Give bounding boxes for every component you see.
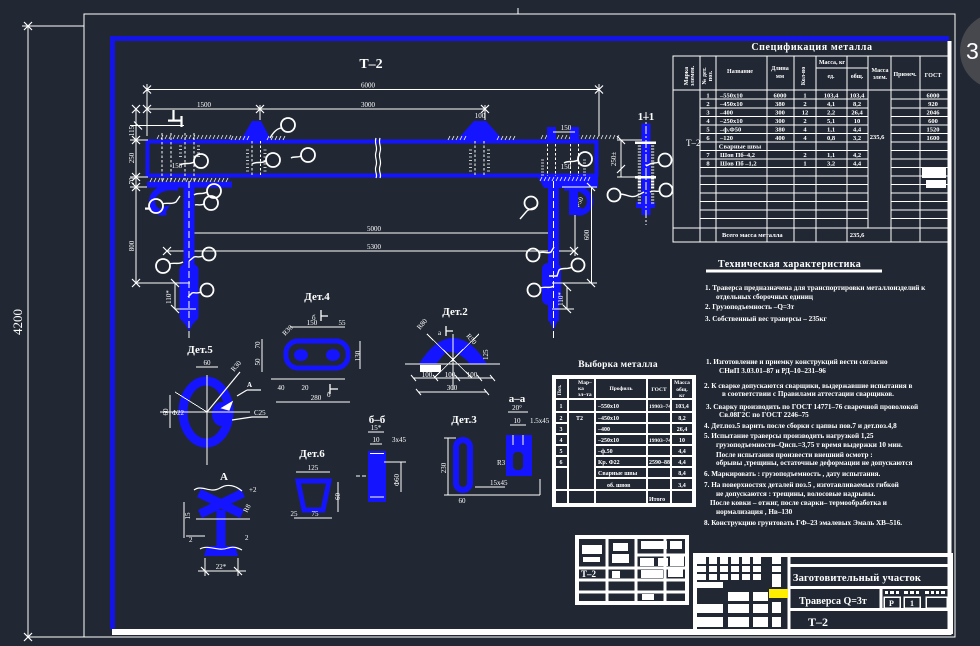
spec note blob right	[922, 168, 946, 178]
svg-text:поз.: поз.	[708, 70, 714, 81]
svg-text:10: 10	[679, 438, 685, 444]
Det.5 A arrow	[237, 390, 261, 396]
svg-text:–450х10: –450х10	[597, 416, 619, 422]
svg-text:1.5х45: 1.5х45	[530, 417, 550, 425]
svg-text:Шов Пб –1,2: Шов Пб –1,2	[720, 161, 757, 168]
svg-text:26,4: 26,4	[851, 110, 863, 117]
svg-text:4,4: 4,4	[853, 127, 862, 134]
combs above beam top at right posts	[541, 135, 619, 139]
svg-text:50: 50	[254, 358, 262, 366]
svg-text:Сварные швы: Сварные швы	[598, 471, 638, 477]
svg-text:–250х10: –250х10	[597, 438, 619, 444]
left gusset comb	[150, 178, 228, 182]
svg-text:Кол-во: Кол-во	[801, 67, 807, 86]
svg-text:Т–2: Т–2	[581, 569, 597, 579]
svg-text:4200: 4200	[10, 309, 25, 335]
lug1 dashed center	[252, 141, 261, 176]
svg-text:Название: Название	[727, 69, 753, 75]
Det.2 centerlines	[405, 334, 500, 390]
svg-text:130: 130	[354, 350, 362, 361]
Det.2 white block	[420, 365, 441, 372]
svg-text:–120: –120	[719, 135, 733, 142]
svg-text:грузоподъемности–Qисп.=3,75 т: грузоподъемности–Qисп.=3,75 т время выде…	[716, 441, 903, 449]
svg-text:–450х10: –450х10	[719, 101, 743, 108]
svg-text:6000: 6000	[774, 93, 787, 100]
svg-text:Спецификация металла: Спецификация металла	[751, 42, 872, 53]
lug 1 hatch	[231, 136, 285, 140]
svg-text:19903–74: 19903–74	[649, 438, 671, 444]
1-1 dim 250	[617, 136, 642, 177]
svg-text:2: 2	[245, 534, 249, 542]
svg-text:Масса, кг: Масса, кг	[819, 60, 846, 66]
svg-text:800: 800	[128, 240, 136, 251]
lit/list row tiny text	[885, 591, 945, 594]
svg-text:мм: мм	[776, 74, 784, 80]
left stiffener dashed pair 1	[162, 133, 171, 183]
svg-text:+2: +2	[249, 486, 257, 494]
svg-text:2: 2	[189, 536, 193, 544]
svg-text:элем.: элем.	[873, 75, 888, 81]
svg-text:1500: 1500	[197, 101, 212, 109]
svg-text:100: 100	[422, 371, 433, 379]
stamp blobs	[582, 541, 684, 600]
dim 5000	[186, 212, 557, 240]
svg-text:380: 380	[775, 127, 785, 134]
svg-text:Итого: Итого	[649, 497, 665, 503]
svg-text:0,8: 0,8	[827, 135, 836, 142]
vyborka header text	[557, 380, 690, 399]
svg-text:600: 600	[928, 118, 938, 125]
lug 2 hatch	[448, 136, 515, 140]
svg-text:Техническая характеристика: Техническая характеристика	[718, 259, 861, 270]
Det.6 dims	[294, 472, 338, 518]
svg-text:3: 3	[966, 38, 979, 64]
4200 dimension	[22, 22, 84, 641]
tech char items	[705, 284, 926, 323]
svg-text:Профиль: Профиль	[609, 385, 632, 392]
svg-text:После ковки – отжиг, после сва: После ковки – отжиг, после сварки– термо…	[710, 499, 887, 507]
svg-text:5: 5	[560, 449, 563, 455]
spec table header text	[684, 60, 941, 86]
svg-text:400: 400	[775, 135, 785, 142]
svg-text:2590–88: 2590–88	[649, 460, 670, 466]
right end comb inside beam	[541, 160, 586, 175]
svg-text:5300: 5300	[367, 243, 382, 251]
svg-text:–250х10: –250х10	[719, 118, 743, 125]
svg-text:300: 300	[447, 384, 458, 392]
Det.4 section mark b bottom	[330, 384, 338, 394]
svg-text:1: 1	[803, 161, 806, 168]
svg-text:22*: 22*	[216, 563, 227, 571]
svg-text:230: 230	[440, 462, 448, 473]
view A weld shape	[199, 493, 243, 552]
svg-text:2: 2	[706, 101, 709, 108]
svg-text:–550х10: –550х10	[597, 404, 619, 410]
svg-text:12: 12	[802, 110, 809, 117]
svg-text:115: 115	[128, 125, 136, 136]
svg-text:8,2: 8,2	[853, 101, 861, 108]
svg-text:Всего масса металла: Всего масса металла	[722, 232, 783, 239]
svg-text:1: 1	[803, 93, 806, 100]
left gusset plate	[147, 182, 232, 188]
svg-text:ГОСТ: ГОСТ	[925, 73, 942, 79]
Det.6 trapezoid	[298, 481, 329, 510]
svg-text:Дет.6: Дет.6	[299, 448, 325, 460]
svg-text:4,4: 4,4	[678, 460, 686, 466]
svg-text:2,2: 2,2	[827, 110, 835, 117]
svg-text:150: 150	[561, 124, 572, 132]
yellow highlight	[769, 589, 788, 598]
Det.3 slot	[456, 440, 470, 490]
svg-text:6. Маркировать : грузоподъемно: 6. Маркировать : грузоподъемность , дату…	[704, 470, 880, 478]
svg-text:2: 2	[803, 152, 806, 159]
svg-text:110*: 110*	[165, 290, 173, 304]
right gusset comb	[540, 177, 590, 181]
svg-text:1,1: 1,1	[827, 127, 835, 134]
svg-text:1520: 1520	[927, 127, 940, 134]
svg-text:5000: 5000	[367, 225, 382, 233]
combs above beam top at left stiffeners	[157, 135, 231, 139]
svg-text:5,1: 5,1	[827, 118, 835, 125]
left small hook	[152, 187, 178, 212]
right hanger centerline	[553, 181, 555, 338]
svg-text:4,1: 4,1	[827, 101, 835, 108]
svg-text:Т–2: Т–2	[359, 57, 382, 72]
right end extension line	[574, 190, 576, 256]
svg-text:2: 2	[803, 101, 806, 108]
grey circle 3	[960, 13, 980, 89]
svg-text:СНиП 3.03.01–87 и РД–10–231–96: СНиП 3.03.01–87 и РД–10–231–96	[719, 367, 826, 375]
svg-text:Дет.4: Дет.4	[304, 291, 330, 303]
svg-text:Т–2: Т–2	[808, 615, 828, 629]
dim 600 right	[552, 183, 597, 287]
svg-text:110*: 110*	[557, 292, 565, 306]
svg-text:1,1: 1,1	[827, 152, 835, 159]
svg-text:Т–2: Т–2	[686, 138, 701, 148]
svg-text:300: 300	[775, 110, 785, 117]
svg-text:Св.08Г2С по ГОСТ 2246–75: Св.08Г2С по ГОСТ 2246–75	[719, 411, 809, 419]
svg-text:103,4: 103,4	[850, 93, 865, 100]
svg-text:Заготовительный участок: Заготовительный участок	[793, 573, 922, 584]
svg-text:103,4: 103,4	[824, 93, 839, 100]
svg-text:С25: С25	[254, 409, 266, 417]
svg-text:общ.: общ.	[851, 73, 864, 80]
vyborka rows text	[560, 404, 689, 503]
svg-text:4,4: 4,4	[678, 449, 686, 455]
svg-text:3. Собственный вес траверсы –: 3. Собственный вес траверсы – 235кг	[705, 315, 828, 323]
svg-text:обрывы ,трещины, остаточные де: обрывы ,трещины, остаточные деформации н…	[716, 459, 913, 467]
svg-text:R3: R3	[497, 459, 506, 467]
svg-text:Дет.3: Дет.3	[451, 414, 477, 426]
svg-text:После испытания произвести вне: После испытания произвести внешний осмот…	[716, 451, 873, 459]
spec table rows text	[706, 93, 940, 240]
svg-text:3: 3	[560, 427, 563, 433]
svg-text:2. Грузоподъемность –Q=3т: 2. Грузоподъемность –Q=3т	[705, 303, 795, 311]
svg-text:20: 20	[302, 384, 310, 392]
svg-text:3. Сварку производить по ГОСТ: 3. Сварку производить по ГОСТ 14771–76 с…	[706, 403, 918, 411]
svg-text:Сварные швы: Сварные швы	[719, 144, 761, 151]
lug 1	[241, 121, 271, 140]
svg-text:4,4: 4,4	[853, 161, 862, 168]
svg-text:3,2: 3,2	[827, 161, 835, 168]
svg-text:Выборка металла: Выборка металла	[578, 359, 658, 370]
svg-text:8. Конструкцию грунтовать ГФ–2: 8. Конструкцию грунтовать ГФ–23 эмалевых…	[704, 519, 902, 527]
svg-text:10: 10	[854, 118, 861, 125]
svg-text:55: 55	[339, 319, 347, 327]
svg-text:2046: 2046	[927, 110, 941, 117]
svg-text:250: 250	[128, 152, 136, 163]
svg-text:Длина: Длина	[771, 66, 788, 72]
svg-text:40: 40	[278, 384, 286, 392]
svg-text:125: 125	[482, 349, 490, 360]
svg-text:26,4: 26,4	[677, 427, 688, 433]
svg-text:А: А	[247, 381, 252, 389]
svg-text:эл–та: эл–та	[578, 392, 592, 398]
right hanger column	[542, 188, 561, 330]
svg-text:235,6: 235,6	[850, 232, 865, 239]
svg-text:2. К сварке допускаются сварщи: 2. К сварке допускаются сварщики, выдерж…	[704, 382, 912, 390]
balloon leaders	[162, 128, 578, 297]
svg-text:15*: 15*	[371, 424, 382, 432]
svg-text:60: 60	[204, 359, 212, 367]
Det.2 section mark a	[446, 326, 453, 336]
svg-text:150: 150	[172, 162, 183, 170]
svg-text:100: 100	[467, 371, 478, 379]
section cut mark bottom	[145, 199, 156, 209]
svg-text:Масса: Масса	[674, 380, 690, 386]
1-1 flange lines	[635, 143, 656, 178]
a-a section	[506, 435, 532, 476]
svg-text:Дет.5: Дет.5	[187, 344, 213, 356]
section cut mark top	[168, 110, 182, 127]
svg-text:60: 60	[459, 497, 467, 505]
svg-text:отдельных сборочных единиц: отдельных сборочных единиц	[716, 293, 814, 301]
right end posts	[547, 127, 579, 142]
svg-text:10: 10	[373, 436, 381, 444]
svg-text:6000: 6000	[361, 82, 376, 90]
svg-text:6: 6	[560, 460, 563, 466]
dim 5300	[163, 247, 578, 255]
svg-text:не допускаются : трещины, воло: не допускаются : трещины, волосовые надр…	[716, 490, 876, 498]
svg-text:об. швов: об. швов	[607, 482, 631, 489]
svg-text:–400: –400	[719, 110, 733, 117]
svg-text:100: 100	[445, 371, 456, 379]
right second plate	[569, 188, 578, 215]
lug2 dashed center	[475, 141, 484, 176]
1-1 hatch combs	[638, 146, 654, 203]
svg-text:3х45: 3х45	[392, 436, 407, 444]
svg-text:920: 920	[928, 101, 938, 108]
balloons beam area	[149, 118, 592, 297]
dim 6000	[143, 84, 603, 136]
svg-text:Т2: Т2	[576, 416, 583, 422]
svg-text:150: 150	[307, 319, 318, 327]
svg-text:1. Изготовление и приемку конс: 1. Изготовление и приемку конструкций ве…	[706, 358, 888, 366]
svg-text:1600: 1600	[927, 135, 940, 142]
svg-text:20°: 20°	[512, 404, 522, 412]
svg-text:Траверса Q=3т: Траверса Q=3т	[799, 596, 867, 607]
Det.5 C25 label	[222, 402, 268, 420]
svg-text:1: 1	[910, 599, 914, 608]
svg-text:–400: –400	[597, 427, 610, 433]
svg-text:125: 125	[308, 464, 319, 472]
dim 110* right	[552, 283, 574, 313]
Det.5 centerlines	[160, 375, 250, 465]
right small hook	[564, 187, 590, 212]
svg-text:Шов Пб–4,2: Шов Пб–4,2	[720, 152, 755, 159]
svg-text:6000: 6000	[927, 93, 940, 100]
Det.5 dims	[170, 367, 240, 428]
blue drawing border	[112, 36, 949, 629]
right gusset plate	[538, 177, 598, 188]
svg-text:Кр. Φ22: Кр. Φ22	[598, 460, 620, 466]
Det.3 dims	[444, 438, 540, 495]
svg-text:–ф.50: –ф.50	[597, 448, 613, 455]
svg-text:ГОСТ: ГОСТ	[651, 387, 667, 393]
left hanger column	[180, 188, 199, 332]
svg-text:–ф.Φ50: –ф.Φ50	[719, 127, 741, 134]
Det.2 dims	[413, 378, 493, 392]
left hanger centerline	[188, 181, 190, 338]
svg-text:380: 380	[775, 101, 785, 108]
notes list	[704, 358, 918, 527]
svg-text:8,2: 8,2	[678, 416, 686, 422]
Det.4 dims	[262, 327, 360, 402]
Det.4 plate	[286, 341, 348, 368]
svg-text:3000: 3000	[361, 101, 376, 109]
svg-text:нормализация , Нв–130: нормализация , Нв–130	[716, 508, 793, 516]
left vertical dims 115/250/70/800	[130, 105, 160, 287]
beam break line	[375, 138, 380, 178]
svg-text:–550х10: –550х10	[719, 93, 743, 100]
svg-text:100: 100	[475, 112, 486, 120]
svg-text:4,2: 4,2	[853, 152, 861, 159]
svg-text:75: 75	[312, 510, 320, 518]
svg-text:4. Дет.поз.5 варить после сбор: 4. Дет.поз.5 варить после сборки с цапвы…	[704, 422, 897, 430]
svg-text:в соответствии с Правилами а: в соответствии с Правилами аттестации св…	[722, 390, 894, 398]
dim 1500 / 3000	[143, 105, 599, 136]
svg-text:300: 300	[775, 118, 785, 125]
white right border bar	[948, 41, 952, 635]
dim 110* left	[136, 279, 196, 313]
svg-text:А: А	[220, 471, 228, 483]
svg-text:250±: 250±	[610, 152, 618, 167]
svg-text:3,4: 3,4	[678, 483, 686, 489]
1-1 balloons	[608, 154, 673, 202]
1-1 feet	[636, 202, 655, 208]
svg-text:10: 10	[514, 417, 522, 425]
svg-text:Примеч.: Примеч.	[894, 72, 917, 78]
Det.5 ring	[183, 381, 229, 443]
lug 2	[457, 121, 503, 140]
svg-text:1. Траверса предназначена для: 1. Траверса предназначена для транспорти…	[705, 284, 926, 292]
right end dashed stiffeners	[548, 144, 579, 176]
svg-text:60: 60	[162, 408, 170, 416]
svg-text:Поз.: Поз.	[557, 384, 563, 395]
svg-text:19903–74: 19903–74	[649, 404, 671, 410]
svg-text:235,6: 235,6	[870, 134, 885, 141]
svg-text:5. Испытание траверсы производ: 5. Испытание траверсы производить нагруз…	[704, 432, 874, 440]
svg-text:Дет.2: Дет.2	[442, 306, 468, 318]
white bottom border bar	[112, 629, 950, 635]
svg-text:15х45: 15х45	[490, 479, 508, 487]
left stiffener dashed pair 2	[185, 133, 194, 183]
svg-text:Р: Р	[889, 599, 894, 608]
svg-text:280: 280	[311, 394, 322, 402]
svg-text:103,4: 103,4	[675, 404, 689, 410]
svg-text:70: 70	[254, 341, 262, 349]
svg-text:кг: кг	[679, 393, 685, 399]
Det.2 lug	[419, 338, 487, 364]
svg-text:1: 1	[706, 93, 709, 100]
svg-text:общ.: общ.	[676, 386, 688, 393]
svg-text:15: 15	[184, 512, 192, 520]
title block left grid blocks	[697, 557, 781, 627]
1-1 centerline	[645, 112, 647, 225]
svg-text:б: б	[327, 391, 331, 399]
svg-text:элемен.: элемен.	[690, 65, 696, 86]
svg-text:3,2: 3,2	[853, 135, 861, 142]
svg-text:70: 70	[128, 177, 136, 185]
right 150 dim	[553, 131, 575, 133]
svg-text:ед.: ед.	[827, 74, 835, 80]
svg-text:25: 25	[291, 510, 299, 518]
svg-text:Φ60: Φ60	[393, 473, 401, 486]
b-b bar	[368, 451, 386, 502]
svg-text:60: 60	[334, 493, 342, 501]
svg-text:Φ22: Φ22	[172, 409, 185, 417]
svg-text:8,4: 8,4	[678, 471, 686, 477]
svg-text:4: 4	[560, 438, 563, 444]
svg-text:2: 2	[560, 416, 563, 422]
svg-text:600: 600	[583, 229, 591, 240]
Det.4 section mark b	[321, 310, 328, 321]
svg-text:1: 1	[560, 404, 563, 410]
svg-text:7. На поверхностях деталей поз: 7. На поверхностях деталей поз.5 , изгот…	[704, 481, 899, 489]
beam outline	[146, 140, 598, 177]
svg-text:Масса: Масса	[871, 68, 888, 74]
1-1 web	[642, 124, 651, 216]
svg-text:2: 2	[803, 118, 806, 125]
lug top extension line	[130, 122, 184, 130]
